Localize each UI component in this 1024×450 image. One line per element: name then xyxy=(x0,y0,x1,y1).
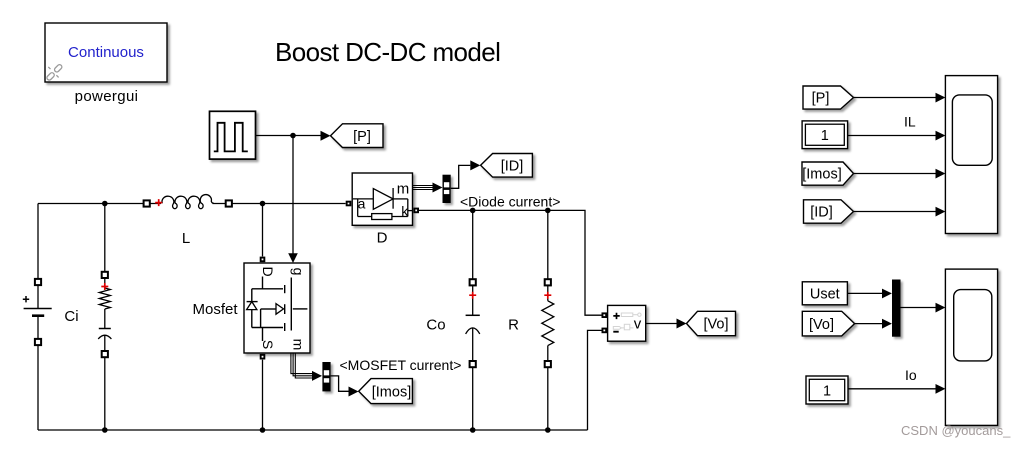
svg-text:Co: Co xyxy=(426,317,445,334)
svg-text:1: 1 xyxy=(821,128,829,144)
junction bottom Ci xyxy=(102,427,108,433)
junction R xyxy=(545,208,551,214)
port diode k xyxy=(413,208,419,214)
arrowhead scope2 in 1 xyxy=(936,303,946,313)
arrowhead into Vo goto xyxy=(677,319,687,329)
port L left xyxy=(144,200,150,206)
wire gate vertical xyxy=(292,136,294,255)
wire P to scope xyxy=(854,97,936,99)
powergui block xyxy=(45,23,167,82)
body diode of mosfet xyxy=(247,302,257,310)
svg-text:Ci: Ci xyxy=(64,308,78,325)
bus selector (MOSFET current) xyxy=(322,362,330,391)
wire const to scope xyxy=(848,135,936,137)
svg-text:m: m xyxy=(291,339,307,351)
port mosfet D xyxy=(260,257,266,263)
svg-text:[Vo]: [Vo] xyxy=(809,317,834,333)
junction pulse/gate xyxy=(290,133,296,139)
svg-text:[ID]: [ID] xyxy=(810,205,833,221)
pulse generator block xyxy=(210,111,256,159)
svg-text:[P]: [P] xyxy=(353,129,371,145)
goto tag [Imos] xyxy=(359,379,413,404)
junction bottom R xyxy=(545,427,551,433)
wire vmeas minus to bottom rail xyxy=(588,330,602,430)
bus diode m xyxy=(413,186,434,190)
svg-text:[Vo]: [Vo] xyxy=(704,317,729,333)
substrate arrow xyxy=(276,304,284,315)
junction Co xyxy=(470,208,476,214)
capacitor branch Co xyxy=(466,210,480,430)
svg-text:m: m xyxy=(397,180,410,197)
port mosfet S xyxy=(260,354,266,360)
port R top xyxy=(545,279,551,285)
wire Vo to mux xyxy=(855,323,882,325)
wire mux to scope xyxy=(901,307,936,309)
port diode a xyxy=(346,201,352,207)
arrowhead into P goto xyxy=(321,131,331,141)
inductor L xyxy=(162,195,214,209)
polarity plus L (red) xyxy=(155,199,162,206)
port vmeas minus xyxy=(602,328,608,334)
arrowhead scope in 4 xyxy=(936,207,946,217)
voltage measurement block xyxy=(608,305,646,341)
port battery bottom xyxy=(35,339,41,345)
junction bottom mosfet S xyxy=(260,427,266,433)
port battery top xyxy=(35,279,41,285)
svg-text:[Imos]: [Imos] xyxy=(802,167,841,183)
bus mosfet m xyxy=(291,354,313,379)
svg-text:powergui: powergui xyxy=(75,88,139,105)
svg-text:R: R xyxy=(508,317,519,334)
goto tag [Vo] xyxy=(687,311,736,335)
arrowhead into selector xyxy=(312,371,322,381)
polarity plus R (red) xyxy=(544,292,551,299)
svg-text:1: 1 xyxy=(823,383,831,399)
arrowhead mux in 2 xyxy=(882,319,892,329)
svg-text:Boost DC-DC model: Boost DC-DC model xyxy=(275,37,500,67)
resistor branch R xyxy=(542,210,554,430)
port Ci top xyxy=(102,272,108,278)
constant 1 (Io) xyxy=(806,376,848,404)
arrowhead into ID goto xyxy=(470,160,480,170)
bus selector (Diode current) xyxy=(443,175,451,203)
diode triangle xyxy=(373,189,393,210)
svg-text:[Imos]: [Imos] xyxy=(372,384,411,400)
svg-text:k: k xyxy=(401,203,409,219)
wire selector to ID xyxy=(451,165,471,188)
svg-text:S: S xyxy=(260,340,276,349)
svg-text:Io: Io xyxy=(905,367,917,383)
from tag [P] (scope input) xyxy=(803,86,854,109)
series RC branch Ci xyxy=(98,204,111,431)
arrowhead scope in 1 xyxy=(936,93,946,103)
port Co bottom xyxy=(470,361,476,367)
svg-text:v: v xyxy=(634,316,642,333)
port Ci bottom xyxy=(102,351,108,357)
from tag [ID] xyxy=(804,200,854,223)
wire pulse to P tag xyxy=(256,135,321,137)
wire ID to scope xyxy=(854,211,936,213)
arrowhead into Imos goto xyxy=(349,387,359,397)
diode block D xyxy=(352,173,412,225)
goto tag [P] xyxy=(331,124,384,148)
arrowhead scope in 3 xyxy=(936,169,946,179)
constant 1 (IL offset) xyxy=(802,121,848,149)
svg-text:[P]: [P] xyxy=(812,91,830,107)
svg-text:[ID]: [ID] xyxy=(501,159,524,175)
DC voltage source battery xyxy=(23,204,52,431)
arrowhead into mosfet gate xyxy=(288,253,298,263)
svg-text:Mosfet: Mosfet xyxy=(193,301,239,318)
polarity plus Co (red) xyxy=(469,292,476,299)
svg-text:IL: IL xyxy=(904,114,916,130)
junction top rail Ci xyxy=(102,201,108,207)
svg-text:D: D xyxy=(260,266,276,276)
wire diode output rail xyxy=(419,210,602,315)
from tag [Imos] xyxy=(802,162,854,185)
wire const to scope2 xyxy=(848,388,936,390)
port R bottom xyxy=(545,361,551,367)
wire mosfet S to bottom rail xyxy=(262,360,264,430)
wire Imos to scope xyxy=(854,173,936,175)
wire selector to Imos xyxy=(331,376,349,391)
junction bottom Co xyxy=(470,427,476,433)
svg-text:CSDN @youcans_: CSDN @youcans_ xyxy=(901,423,1011,438)
scope Io xyxy=(945,269,997,425)
arrowhead scope2 in 2 xyxy=(936,384,946,394)
svg-text:Uset: Uset xyxy=(810,287,840,303)
junction top rail mosfet D xyxy=(260,201,266,207)
svg-text:g: g xyxy=(291,268,307,276)
constant Uset xyxy=(802,282,847,305)
scope IL xyxy=(945,76,997,234)
arrowhead scope in 2 xyxy=(936,131,946,141)
svg-text:D: D xyxy=(377,230,388,247)
goto tag [ID] xyxy=(481,154,533,178)
port Co top xyxy=(470,279,476,285)
svg-text:<MOSFET current>: <MOSFET current> xyxy=(340,357,462,373)
svg-text:L: L xyxy=(182,230,190,247)
wire vmeas output xyxy=(646,323,677,325)
wire bottom rail xyxy=(38,429,588,431)
polarity plus Ci (red) xyxy=(101,283,108,290)
wire top rail xyxy=(38,203,161,205)
arrowhead mux in 1 xyxy=(882,289,892,299)
arrowhead into selector xyxy=(433,183,443,193)
from tag [Vo] xyxy=(802,311,854,336)
wire mosfet D to rail xyxy=(262,204,264,257)
port L right xyxy=(226,200,232,206)
port vmeas plus xyxy=(602,312,608,318)
svg-text:a: a xyxy=(358,196,366,212)
svg-text:<Diode current>: <Diode current> xyxy=(460,194,560,210)
svg-text:Continuous: Continuous xyxy=(68,44,144,61)
mosfet block Mosfet xyxy=(244,263,310,353)
wire Uset to mux xyxy=(847,292,882,294)
mux block xyxy=(892,280,901,337)
